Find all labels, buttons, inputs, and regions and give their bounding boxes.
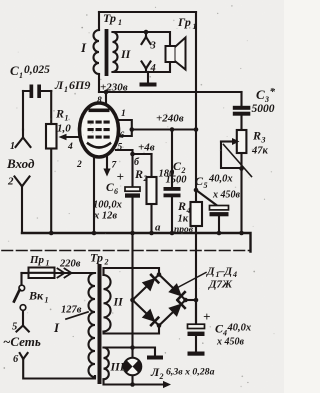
svg-text:4: 4 bbox=[232, 270, 237, 279]
svg-text:6П9: 6П9 bbox=[69, 78, 90, 92]
svg-text:R: R bbox=[55, 107, 64, 121]
svg-text:Л: Л bbox=[150, 365, 160, 379]
svg-text:С: С bbox=[10, 63, 19, 78]
svg-text:2: 2 bbox=[76, 160, 82, 170]
svg-text:2: 2 bbox=[143, 174, 148, 183]
svg-text:1: 1 bbox=[19, 71, 23, 80]
svg-text:4: 4 bbox=[67, 142, 73, 152]
svg-text:+230в: +230в bbox=[100, 82, 128, 94]
svg-text:II: II bbox=[120, 47, 132, 61]
svg-text:1500: 1500 bbox=[166, 175, 188, 186]
svg-text:Тр: Тр bbox=[90, 251, 103, 265]
svg-text:100,0х: 100,0х bbox=[93, 200, 122, 211]
svg-text:1: 1 bbox=[10, 141, 15, 152]
svg-text:С: С bbox=[256, 87, 265, 102]
svg-text:1: 1 bbox=[65, 114, 69, 123]
svg-text:~Сеть: ~Сеть bbox=[3, 334, 41, 349]
svg-text:4: 4 bbox=[150, 63, 156, 74]
svg-text:+4в: +4в bbox=[138, 142, 155, 154]
svg-text:3: 3 bbox=[261, 136, 266, 145]
svg-text:1: 1 bbox=[46, 259, 50, 268]
svg-text:R: R bbox=[252, 129, 261, 143]
svg-text:а: а bbox=[155, 222, 161, 234]
svg-text:1: 1 bbox=[193, 22, 197, 31]
svg-text:1: 1 bbox=[64, 85, 68, 94]
svg-text:1: 1 bbox=[121, 109, 126, 119]
svg-text:+240в: +240в bbox=[156, 113, 184, 125]
svg-text:R: R bbox=[134, 167, 143, 181]
svg-text:6: 6 bbox=[13, 354, 19, 365]
svg-text:1к: 1к bbox=[178, 214, 189, 225]
svg-text:1,0: 1,0 bbox=[57, 123, 71, 135]
svg-text:Тр: Тр bbox=[103, 11, 116, 25]
svg-text:х 12в: х 12в bbox=[93, 211, 117, 222]
svg-text:*: * bbox=[270, 86, 276, 98]
svg-text:2: 2 bbox=[104, 258, 109, 267]
svg-text:I: I bbox=[53, 320, 60, 335]
svg-text:–Д: –Д bbox=[218, 266, 233, 278]
svg-text:40,0х: 40,0х bbox=[208, 174, 233, 185]
svg-text:х 450в: х 450в bbox=[216, 337, 245, 348]
svg-text:47к: 47к bbox=[251, 146, 269, 157]
svg-text:Вход: Вход bbox=[6, 156, 35, 171]
svg-text:5: 5 bbox=[204, 181, 208, 190]
svg-text:Л: Л bbox=[54, 78, 64, 92]
svg-text:6: 6 bbox=[114, 187, 118, 196]
svg-text:III: III bbox=[110, 360, 126, 374]
svg-text:5: 5 bbox=[12, 322, 17, 333]
svg-text:R: R bbox=[177, 199, 186, 213]
svg-text:х 450в: х 450в bbox=[212, 190, 241, 201]
svg-text:Д7Ж: Д7Ж bbox=[208, 279, 233, 291]
svg-text:Д: Д bbox=[206, 266, 215, 278]
svg-text:2: 2 bbox=[159, 372, 164, 381]
svg-text:127в: 127в bbox=[61, 305, 82, 316]
svg-text:3: 3 bbox=[150, 41, 156, 52]
svg-text:6,3в х 0,28а: 6,3в х 0,28а bbox=[166, 367, 215, 378]
svg-text:I: I bbox=[80, 40, 87, 55]
svg-text:2: 2 bbox=[7, 176, 14, 188]
svg-text:Вк: Вк bbox=[28, 289, 44, 303]
svg-text:Пр: Пр bbox=[29, 254, 45, 266]
svg-text:+: + bbox=[203, 309, 210, 324]
svg-text:1: 1 bbox=[118, 18, 122, 27]
svg-text:+: + bbox=[117, 169, 124, 184]
svg-text:40,0х: 40,0х bbox=[227, 323, 252, 334]
svg-text:220в: 220в bbox=[59, 259, 81, 270]
svg-text:5000: 5000 bbox=[252, 103, 275, 115]
svg-text:6: 6 bbox=[120, 131, 125, 141]
svg-text:пров: пров bbox=[174, 225, 194, 235]
svg-text:II: II bbox=[113, 295, 125, 309]
svg-text:1: 1 bbox=[45, 296, 49, 305]
svg-text:Гр: Гр bbox=[177, 15, 191, 29]
svg-text:С: С bbox=[106, 182, 114, 194]
svg-text:5: 5 bbox=[118, 143, 123, 153]
svg-text:0,025: 0,025 bbox=[24, 64, 50, 76]
svg-text:8: 8 bbox=[97, 96, 102, 106]
